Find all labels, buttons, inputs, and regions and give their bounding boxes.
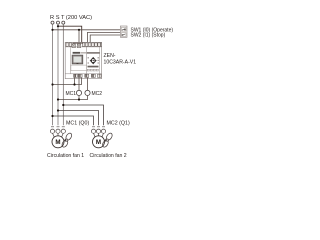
svg-text:SW2 (I1) (Stop): SW2 (I1) (Stop)	[131, 33, 166, 39]
fan 1 propeller	[61, 132, 73, 148]
wire rail S	[57, 24, 59, 125]
svg-text:M: M	[96, 139, 101, 146]
wire rail R	[52, 24, 54, 125]
ZEN keypad side dots	[88, 57, 99, 63]
ZEN left flange line	[70, 47, 72, 74]
svg-text:R S T (200 VAC): R S T (200 VAC)	[50, 15, 92, 21]
node on R rail	[51, 83, 53, 85]
wire W1 S-rail to ZEN terminal L	[58, 26, 82, 43]
motor M1	[52, 136, 64, 148]
ZEN bottom output terminals	[74, 74, 102, 77]
ZEN top strip divider	[65, 46, 101, 48]
svg-text:MC1: MC1	[66, 91, 77, 97]
ZEN logo bar	[73, 52, 81, 54]
svg-text:10C3AR-A-V1: 10C3AR-A-V1	[104, 59, 137, 65]
terminal screw L	[72, 44, 75, 48]
ZEN LCD cursor	[77, 62, 79, 65]
svg-text:Circulation fan 2: Circulation fan 2	[90, 153, 127, 159]
op ZEN unit outer body	[65, 42, 101, 78]
node common join	[73, 83, 75, 85]
switch SW2 cell	[121, 33, 126, 37]
node W2 branch	[78, 29, 80, 31]
coil MC1	[76, 90, 81, 95]
ZEN top terminals	[66, 43, 102, 46]
wire bar above L N terminals	[73, 42, 84, 44]
svg-text:Circulation fan 1: Circulation fan 1	[47, 153, 84, 159]
node on S rail	[57, 98, 59, 100]
wire output common A	[74, 78, 76, 85]
svg-text:MC2: MC2	[92, 91, 103, 97]
contactor contacts MC1	[50, 127, 65, 139]
switch SW1 cell	[121, 27, 126, 31]
wire coil returns to S rail	[58, 96, 88, 100]
ZEN right module bottom bar	[88, 66, 99, 68]
wire branch to ZEN terminal N	[78, 30, 80, 43]
ZEN LCD	[72, 55, 83, 64]
terminal screw N	[77, 44, 80, 48]
node on R rail	[51, 115, 53, 117]
wire Q1 to coil MC2	[87, 78, 89, 91]
ZEN bottom strip divider	[65, 73, 101, 75]
node on S rail	[57, 25, 59, 27]
ZEN right flange line	[99, 47, 101, 74]
svg-text:M: M	[55, 139, 60, 146]
switch SW1/SW2 box stack	[120, 26, 127, 37]
wire Q0 to coil MC1	[78, 78, 80, 91]
node on S rail	[57, 109, 59, 111]
contactor contacts MC2	[91, 127, 105, 139]
ZEN module divider	[86, 47, 88, 74]
wire fan2 phase T	[63, 105, 103, 125]
svg-text:MC2 (Q1): MC2 (Q1)	[107, 120, 130, 126]
node coil1 return	[78, 98, 80, 100]
fan 2 propeller	[101, 132, 113, 148]
terminal T	[62, 21, 65, 24]
wire fan2 phase R	[53, 116, 94, 125]
node on T rail	[62, 104, 64, 106]
svg-text:ZEN-: ZEN-	[104, 53, 116, 59]
ZEN label strip squares	[87, 69, 98, 71]
node on R rail	[51, 29, 53, 31]
ZEN right module top bar	[87, 52, 100, 53]
wire W2 R-rail to switches	[53, 29, 121, 31]
ZEN button area box	[71, 65, 87, 71]
terminal S	[57, 21, 60, 24]
terminal R	[51, 21, 54, 24]
coil MC2	[85, 90, 90, 95]
wire fan2 phase S	[58, 111, 99, 126]
svg-text:MC1 (Q0): MC1 (Q0)	[66, 120, 89, 126]
ZEN keypad arrows	[90, 57, 97, 65]
wire rail T	[62, 24, 64, 125]
motor M2	[93, 136, 105, 148]
wire input I0 to SW1	[88, 32, 121, 42]
wire output common B	[53, 78, 82, 85]
wire input I1 to SW2	[90, 35, 120, 43]
